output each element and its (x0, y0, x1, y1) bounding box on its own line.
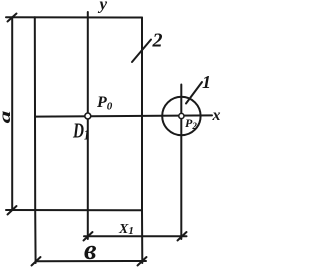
right extension line to dimension b (141, 210, 143, 263)
plate bottom edge (6, 209, 142, 211)
top edge line of plate (6, 16, 142, 18)
svg-text:1: 1 (202, 72, 211, 92)
left extension line to dimension b (34, 210, 36, 263)
x axis line (35, 115, 212, 116)
node P2 open circle at circle 1 center (179, 113, 184, 118)
svg-text:P2: P2 (185, 116, 197, 131)
tick at right of X1 (178, 232, 187, 241)
dimension line X1 (84, 235, 187, 237)
tick at right of dimension b (138, 257, 147, 266)
svg-text:y: y (98, 0, 108, 14)
svg-text:P0: P0 (96, 94, 113, 113)
node P0 open circle (85, 113, 91, 119)
tick at top of dimension a (8, 14, 17, 22)
circle 1 outline (162, 97, 200, 135)
y axis line (87, 12, 89, 239)
tick at left of dimension b (32, 257, 41, 266)
plate left edge (34, 17, 36, 210)
svg-text:X1: X1 (118, 222, 134, 237)
leader line for label 2 (132, 40, 151, 63)
svg-text:D1: D1 (72, 119, 89, 143)
plate right edge (141, 18, 143, 211)
dimension line a (11, 17, 13, 210)
svg-text:x: x (212, 107, 221, 124)
tick at bottom of dimension a (8, 206, 17, 215)
dimension line b (36, 260, 146, 262)
svg-text:2: 2 (152, 30, 163, 52)
svg-text:a: a (0, 110, 14, 123)
tick at left of X1 (84, 232, 93, 241)
leader line for label 1 (186, 82, 202, 104)
circle 1 vertical centerline (180, 85, 182, 240)
svg-text:в: в (84, 235, 97, 266)
